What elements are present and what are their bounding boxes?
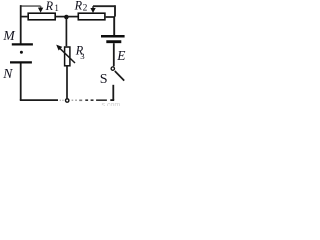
- wire top-right horizontal: [93, 5, 115, 7]
- wire bottom-right corner piece: [110, 99, 114, 101]
- svg-text:E: E: [116, 48, 125, 63]
- wire left rail upper: [20, 5, 22, 43]
- svg-text:1: 1: [54, 3, 59, 13]
- capacitor plate M: [12, 43, 33, 45]
- wire bottom dashed segment (dark dashes): [85, 99, 107, 101]
- wire faint dots after solid end: [60, 99, 64, 101]
- wire R3 branch lower: [66, 66, 68, 99]
- svg-text:M: M: [2, 28, 15, 43]
- battery E long plate: [101, 35, 125, 38]
- svg-text:R: R: [45, 0, 54, 13]
- rheostat R3 arrow: [59, 48, 75, 63]
- node bottom terminal ring: [66, 99, 69, 102]
- resistor R2: [78, 13, 105, 20]
- wire bottom dash mid: [79, 99, 82, 101]
- svg-text:s.com: s.com: [102, 102, 121, 106]
- wire R2 right lead: [106, 16, 115, 18]
- wire bottom solid left: [20, 99, 58, 101]
- svg-text:S: S: [100, 72, 108, 87]
- svg-text:R: R: [74, 0, 83, 13]
- wire bottom dashed segment (faint dashes): [72, 99, 77, 101]
- capacitor plate N: [10, 61, 32, 63]
- svg-text:3: 3: [80, 51, 85, 61]
- wire left rail lower (N plate to corner): [20, 63, 22, 100]
- resistor R1: [28, 13, 55, 20]
- wire top-left horizontal (gray): [20, 5, 41, 7]
- svg-text:N: N: [2, 66, 13, 81]
- wire R3 branch upper: [65, 17, 67, 46]
- switch lower stub: [112, 85, 114, 100]
- wire node to R2: [66, 16, 77, 18]
- node junction dot: [64, 15, 69, 20]
- svg-text:2: 2: [83, 4, 88, 14]
- wire R1 left lead: [20, 16, 27, 18]
- wire battery to switch: [113, 43, 115, 66]
- rheostat R3 arrowhead: [56, 45, 62, 51]
- rheostat R3 box: [65, 47, 70, 66]
- charged particle between plates: [20, 51, 23, 54]
- battery E short plate: [106, 40, 121, 43]
- wire R1 to node: [56, 16, 67, 18]
- switch S lever: [115, 71, 124, 81]
- arrowhead onto R2: [90, 8, 95, 13]
- wire R1 slider arrow shaft: [40, 6, 42, 9]
- wire rail to battery: [113, 17, 115, 36]
- wire right rail upper: [114, 5, 116, 16]
- arrowhead onto R1: [38, 8, 43, 13]
- switch S pivot circle: [111, 67, 114, 70]
- wire R2 slider arrow shaft: [92, 6, 94, 9]
